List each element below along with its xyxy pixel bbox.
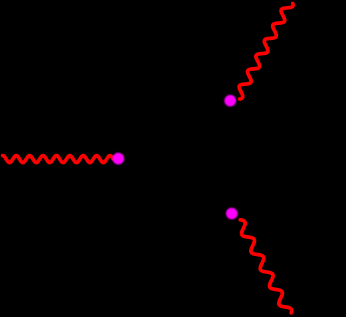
photon line lower-right (wavy propagator into vertex V3) xyxy=(240,220,291,313)
photon line left (wavy propagator into vertex V1) xyxy=(3,156,113,163)
vertex dot V1 (left) xyxy=(113,153,125,165)
vertex dot V3 (lower right) xyxy=(226,208,238,220)
vertex dot V2 (upper right) xyxy=(224,95,236,107)
photon line upper-right (wavy propagator into vertex V2) xyxy=(239,3,293,99)
